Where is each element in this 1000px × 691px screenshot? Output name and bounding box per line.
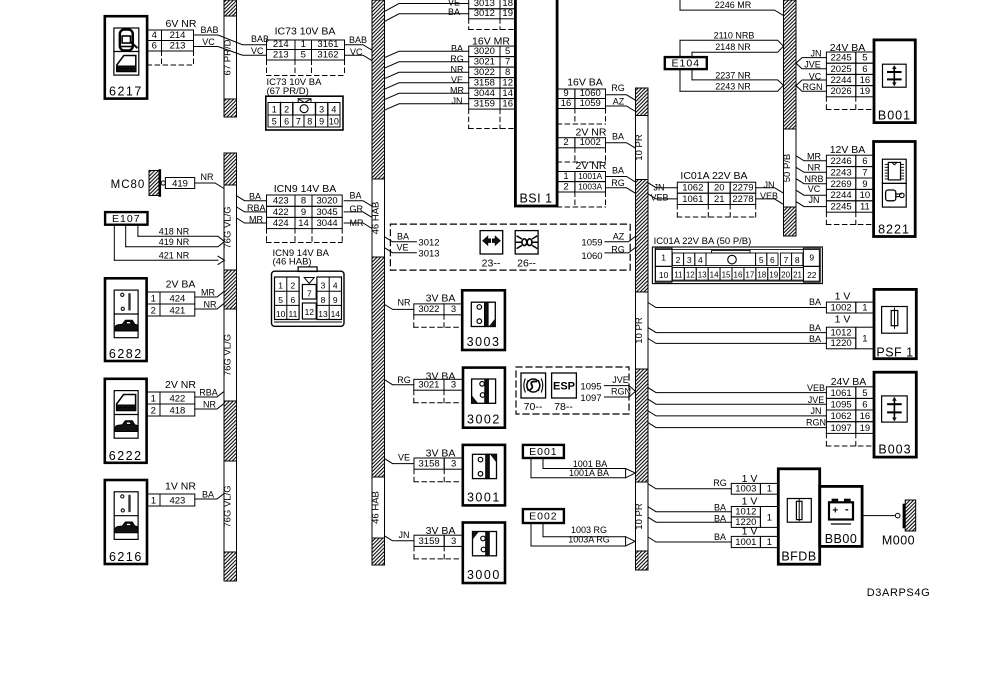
inline connector IC73 10V BA table bbox=[251, 26, 367, 76]
svg-text:10: 10 bbox=[860, 190, 871, 201]
svg-text:8: 8 bbox=[795, 255, 800, 265]
svg-text:VE: VE bbox=[398, 453, 410, 463]
svg-text:3044: 3044 bbox=[474, 88, 495, 99]
svg-text:78--: 78-- bbox=[554, 401, 573, 413]
connector rows for 6282 (1/424, 2/421) bbox=[147, 279, 217, 317]
connector rows for 6222 (1/422, 2/418) bbox=[147, 379, 218, 416]
svg-text:2026: 2026 bbox=[831, 86, 852, 97]
wire 419 NR from MC80 to 76G VL/G bbox=[195, 183, 224, 189]
svg-text:RGN: RGN bbox=[803, 82, 823, 92]
svg-text:RG: RG bbox=[397, 375, 411, 385]
svg-text:418: 418 bbox=[169, 405, 185, 416]
harness bar 67 PR/D bbox=[222, 0, 236, 117]
svg-text:12: 12 bbox=[305, 307, 315, 317]
svg-text:-: - bbox=[845, 504, 849, 516]
svg-text:BA: BA bbox=[809, 334, 821, 344]
svg-text:19: 19 bbox=[502, 8, 513, 19]
wires 2237 NR / 2243 NR converging into 50 P/B bbox=[680, 70, 784, 91]
heated screen B001 bbox=[874, 40, 915, 123]
svg-text:7: 7 bbox=[296, 117, 301, 127]
svg-text:3022: 3022 bbox=[418, 304, 439, 315]
wire 1059 AZ stub bbox=[581, 232, 635, 249]
svg-text:20: 20 bbox=[781, 271, 790, 280]
svg-text:26--: 26-- bbox=[517, 258, 536, 270]
svg-text:1 V: 1 V bbox=[835, 314, 851, 326]
svg-text:2: 2 bbox=[563, 137, 568, 148]
svg-text:3159: 3159 bbox=[474, 99, 495, 110]
svg-text:3: 3 bbox=[451, 459, 456, 470]
svg-text:13: 13 bbox=[698, 271, 707, 280]
svg-text:3013: 3013 bbox=[418, 248, 439, 259]
wire 421 NR to 76G VL/G bbox=[195, 304, 224, 310]
svg-text:2: 2 bbox=[151, 405, 156, 416]
row 1003 (1V) for BFDB bbox=[713, 473, 778, 495]
svg-text:6: 6 bbox=[284, 117, 289, 127]
svg-text:423: 423 bbox=[169, 495, 185, 506]
svg-text:3021: 3021 bbox=[474, 57, 495, 68]
svg-text:424: 424 bbox=[273, 218, 289, 229]
svg-text:+: + bbox=[832, 506, 838, 517]
svg-text:2V BA: 2V BA bbox=[166, 279, 196, 291]
svg-text:8221: 8221 bbox=[878, 223, 910, 237]
ground M000 bbox=[882, 500, 916, 548]
svg-text:419 NR: 419 NR bbox=[159, 237, 190, 247]
svg-text:1059: 1059 bbox=[580, 98, 601, 109]
svg-text:1: 1 bbox=[767, 484, 772, 495]
svg-text:50 P/B: 50 P/B bbox=[782, 154, 793, 183]
svg-text:2246 MR: 2246 MR bbox=[715, 0, 752, 10]
svg-text:5: 5 bbox=[759, 255, 764, 265]
svg-text:10: 10 bbox=[276, 309, 286, 319]
wires BA/RBA/MR from 76G VL/G into ICN9 bbox=[237, 196, 267, 223]
wire 1059 AZ to 10 PR bbox=[606, 106, 636, 112]
svg-text:JN: JN bbox=[452, 96, 463, 106]
svg-text:VC: VC bbox=[251, 46, 264, 56]
splice E001 bbox=[523, 445, 564, 478]
svg-text:5: 5 bbox=[862, 53, 867, 64]
svg-text:5: 5 bbox=[278, 295, 283, 305]
svg-text:14: 14 bbox=[502, 88, 513, 99]
svg-text:46 HAB: 46 HAB bbox=[370, 491, 381, 524]
wire 1220 BA from 10 PR bbox=[648, 338, 826, 343]
harness bar 50 P/B bbox=[782, 0, 796, 236]
svg-text:213: 213 bbox=[170, 40, 186, 51]
BSI1 right table 2V NR (1002) bbox=[557, 127, 624, 163]
svg-text:1: 1 bbox=[767, 513, 772, 524]
icon 26: lamps bbox=[515, 231, 538, 270]
icon 23: direction indicators (double arrow) bbox=[480, 231, 503, 270]
svg-text:1062: 1062 bbox=[682, 183, 703, 194]
svg-text:BA: BA bbox=[448, 7, 460, 17]
wires 3020/3045/3044 from ICN9 to 46 HAB bbox=[344, 201, 372, 229]
svg-text:16V BA: 16V BA bbox=[567, 77, 603, 89]
svg-text:VE: VE bbox=[451, 75, 463, 85]
svg-text:1062: 1062 bbox=[831, 411, 852, 422]
svg-text:NR: NR bbox=[203, 400, 216, 410]
BSI1 left rows 3013/18 and 3012/19 bbox=[448, 0, 515, 30]
wire 2246 MR from top into 50 P/B bbox=[680, 0, 784, 16]
svg-text:1: 1 bbox=[278, 281, 283, 291]
svg-text:2243: 2243 bbox=[831, 167, 852, 178]
splice E002 bbox=[523, 509, 564, 546]
icon 70: ABS/ESP symbol bbox=[521, 373, 546, 413]
svg-text:BA: BA bbox=[397, 232, 409, 242]
svg-text:3: 3 bbox=[321, 281, 326, 291]
svg-text:4: 4 bbox=[698, 255, 703, 265]
wires 2110 NRB / 2148 NR converging into 50 P/B bbox=[680, 30, 784, 52]
rows 1012/1220 (1V) for BFDB bbox=[714, 496, 778, 528]
wire 3158 VE from 46 HAB to 3001 bbox=[385, 459, 415, 464]
door lock actuator 3003 bbox=[462, 290, 505, 350]
fuse box BFDB bbox=[778, 469, 819, 564]
splice E107 bbox=[105, 212, 147, 260]
svg-text:421 NR: 421 NR bbox=[159, 251, 190, 261]
svg-text:ICN9 14V BA: ICN9 14V BA bbox=[274, 183, 336, 195]
svg-text:8: 8 bbox=[505, 67, 510, 78]
connector row for 3002 bbox=[397, 371, 463, 403]
inline connector ICN9 14V BA table bbox=[247, 183, 364, 243]
svg-text:BSI 1: BSI 1 bbox=[519, 192, 552, 206]
svg-text:5: 5 bbox=[505, 46, 510, 57]
svg-text:2025: 2025 bbox=[831, 64, 852, 75]
svg-text:76G VL/G: 76G VL/G bbox=[222, 485, 233, 527]
svg-text:1: 1 bbox=[151, 393, 156, 404]
svg-text:E002: E002 bbox=[529, 511, 558, 523]
svg-text:3045: 3045 bbox=[317, 207, 338, 218]
svg-text:IC01A 22V BA (50 P/B): IC01A 22V BA (50 P/B) bbox=[654, 236, 752, 247]
svg-text:7: 7 bbox=[307, 289, 312, 299]
svg-text:RG: RG bbox=[450, 54, 464, 64]
harness bar 76G VL/G bbox=[222, 153, 236, 581]
svg-text:3003: 3003 bbox=[467, 335, 501, 349]
wire 3022 NR from 46 HAB to 3003 bbox=[385, 304, 414, 309]
svg-text:BB00: BB00 bbox=[825, 532, 858, 546]
svg-text:BA: BA bbox=[809, 323, 821, 333]
svg-text:16: 16 bbox=[734, 271, 743, 280]
svg-text:7: 7 bbox=[505, 57, 510, 68]
svg-text:2: 2 bbox=[151, 305, 156, 316]
svg-text:VE: VE bbox=[396, 243, 408, 253]
svg-text:10: 10 bbox=[329, 117, 339, 127]
svg-text:1: 1 bbox=[661, 253, 666, 263]
svg-text:6: 6 bbox=[291, 295, 296, 305]
svg-text:2: 2 bbox=[284, 105, 289, 115]
svg-text:1 V: 1 V bbox=[742, 526, 758, 538]
svg-text:3: 3 bbox=[451, 380, 456, 391]
svg-text:RG: RG bbox=[611, 83, 625, 93]
harness bar 46 HAB bbox=[370, 0, 384, 565]
svg-text:2: 2 bbox=[676, 255, 681, 265]
row 1002 (1V) for PSF1 bbox=[809, 291, 874, 314]
svg-text:AZ: AZ bbox=[613, 232, 625, 242]
svg-text:MR: MR bbox=[201, 288, 215, 298]
svg-text:JN: JN bbox=[811, 406, 822, 416]
svg-text:D3ARPS4G: D3ARPS4G bbox=[867, 587, 931, 599]
svg-text:6282: 6282 bbox=[109, 347, 143, 361]
row 1001 (1V) for BFDB bbox=[714, 526, 778, 549]
wires from 50 P/B to 8221 bbox=[796, 156, 826, 207]
wire 418 NR to 76G VL/G bbox=[195, 404, 224, 410]
connector table 24V BA for B003 bbox=[806, 376, 874, 446]
wire 1001 BA from 10 PR bbox=[648, 537, 731, 542]
svg-text:1: 1 bbox=[272, 105, 277, 115]
svg-text:4: 4 bbox=[331, 105, 336, 115]
svg-text:19: 19 bbox=[769, 271, 778, 280]
switch module 6282 bbox=[105, 278, 147, 361]
svg-text:RGN: RGN bbox=[611, 387, 631, 397]
svg-text:NR: NR bbox=[808, 163, 821, 173]
wire 421 NR from E107 into 76G VL/G bbox=[114, 251, 224, 265]
svg-text:3162: 3162 bbox=[317, 49, 338, 60]
svg-text:GR: GR bbox=[350, 204, 364, 214]
svg-text:5: 5 bbox=[272, 117, 277, 127]
IC01A connector face (50 P/B) bbox=[652, 236, 822, 284]
svg-text:BA: BA bbox=[249, 192, 261, 202]
wire 424 MR to 76G VL/G bbox=[195, 292, 224, 298]
dashed function group box ESP (items 70, 78) bbox=[516, 367, 629, 414]
wires 3020/3021/3022/3158/3044/3159 to 46 HAB bbox=[385, 51, 469, 110]
svg-text:13: 13 bbox=[318, 309, 328, 319]
wire 1012 BA from 10 PR bbox=[648, 328, 826, 333]
svg-text:213: 213 bbox=[273, 49, 289, 60]
svg-text:BAB: BAB bbox=[200, 25, 218, 35]
svg-text:MC80: MC80 bbox=[111, 179, 146, 191]
svg-text:21: 21 bbox=[714, 194, 725, 205]
svg-text:5: 5 bbox=[301, 49, 306, 60]
svg-text:JVE: JVE bbox=[808, 395, 825, 405]
svg-text:10 PR: 10 PR bbox=[634, 317, 645, 344]
svg-text:18: 18 bbox=[757, 271, 766, 280]
switch module 6222 bbox=[105, 379, 147, 463]
harness bar 10 PR bbox=[634, 88, 648, 570]
svg-text:NRB: NRB bbox=[804, 174, 823, 184]
svg-text:1002: 1002 bbox=[580, 137, 601, 148]
svg-text:12: 12 bbox=[502, 78, 513, 89]
svg-text:1097: 1097 bbox=[831, 423, 852, 434]
svg-text:BFDB: BFDB bbox=[781, 550, 816, 564]
door lock actuator 3002 bbox=[463, 368, 505, 428]
svg-text:3: 3 bbox=[319, 105, 324, 115]
svg-text:3001: 3001 bbox=[467, 490, 501, 504]
svg-text:BA: BA bbox=[350, 191, 362, 201]
svg-text:11: 11 bbox=[860, 202, 870, 213]
svg-text:7: 7 bbox=[862, 167, 867, 178]
svg-text:9: 9 bbox=[301, 207, 306, 218]
svg-text:24V BA: 24V BA bbox=[831, 376, 867, 388]
svg-text:(46 HAB): (46 HAB) bbox=[273, 257, 312, 268]
svg-text:VC: VC bbox=[808, 184, 821, 194]
svg-text:2269: 2269 bbox=[831, 179, 852, 190]
svg-text:M000: M000 bbox=[882, 534, 915, 548]
svg-text:BA: BA bbox=[451, 44, 463, 54]
wire 1060 RG stub bbox=[581, 245, 635, 262]
svg-text:E107: E107 bbox=[112, 213, 141, 225]
svg-text:3158: 3158 bbox=[474, 78, 495, 89]
svg-text:1002: 1002 bbox=[831, 302, 852, 313]
svg-text:6: 6 bbox=[862, 64, 867, 75]
splice E104 bbox=[665, 40, 707, 91]
svg-text:1060: 1060 bbox=[581, 251, 602, 262]
wires from 10 PR to B003 bbox=[648, 388, 826, 428]
svg-text:NR: NR bbox=[398, 298, 411, 308]
svg-text:AZ: AZ bbox=[613, 97, 625, 107]
svg-text:MR: MR bbox=[807, 152, 821, 162]
svg-text:8: 8 bbox=[307, 117, 312, 127]
svg-text:21: 21 bbox=[793, 271, 802, 280]
svg-text:6: 6 bbox=[152, 40, 157, 51]
svg-text:RBA: RBA bbox=[199, 388, 218, 398]
svg-text:3012: 3012 bbox=[474, 8, 495, 19]
svg-text:BA: BA bbox=[612, 166, 624, 176]
svg-text:19: 19 bbox=[860, 86, 871, 97]
svg-text:67 PR/D: 67 PR/D bbox=[222, 39, 233, 75]
svg-text:3161: 3161 bbox=[317, 39, 338, 50]
svg-text:11: 11 bbox=[288, 309, 297, 319]
svg-text:2V NR: 2V NR bbox=[165, 379, 196, 391]
svg-text:20: 20 bbox=[714, 183, 725, 194]
svg-text:2278: 2278 bbox=[732, 194, 753, 205]
svg-text:1012: 1012 bbox=[831, 327, 852, 338]
wire 1003 RG from 10 PR to BFDB bbox=[648, 484, 731, 489]
IC73 connector face (67 PR/D) bbox=[266, 77, 343, 130]
svg-text:4: 4 bbox=[333, 281, 338, 291]
svg-text:JN: JN bbox=[764, 180, 775, 190]
svg-text:B003: B003 bbox=[878, 443, 911, 457]
svg-text:MR: MR bbox=[450, 86, 464, 96]
svg-text:424: 424 bbox=[169, 293, 185, 304]
svg-text:10 PR: 10 PR bbox=[634, 503, 645, 530]
svg-text:1V NR: 1V NR bbox=[165, 481, 196, 493]
wire 422 RBA to 76G VL/G bbox=[195, 392, 224, 398]
door lock actuator 3001 bbox=[463, 445, 505, 506]
svg-text:1220: 1220 bbox=[831, 338, 852, 349]
connector row for 3003 bbox=[398, 293, 464, 328]
connector row for 3001 bbox=[398, 448, 463, 482]
svg-text:1: 1 bbox=[151, 293, 156, 304]
svg-text:B001: B001 bbox=[878, 109, 911, 123]
wire from BB00 to ground M000 bbox=[862, 515, 895, 517]
control unit BSI1 bbox=[515, 0, 557, 206]
svg-text:1: 1 bbox=[151, 495, 156, 506]
fuse box PSF1 bbox=[874, 289, 916, 359]
wire 1001A BA to 10 PR bbox=[606, 177, 636, 183]
svg-text:1061: 1061 bbox=[831, 388, 852, 399]
svg-text:JN: JN bbox=[399, 530, 410, 540]
svg-text:1: 1 bbox=[563, 171, 568, 182]
svg-text:7: 7 bbox=[784, 255, 789, 265]
svg-text:2244: 2244 bbox=[831, 75, 852, 86]
svg-text:19: 19 bbox=[860, 423, 871, 434]
svg-text:2245: 2245 bbox=[831, 202, 852, 213]
wire 3162 VC to 46 HAB bbox=[345, 55, 373, 61]
door lock actuator 3000 bbox=[463, 523, 505, 584]
svg-text:RG: RG bbox=[611, 178, 625, 188]
svg-text:3021: 3021 bbox=[418, 380, 439, 391]
svg-text:1061: 1061 bbox=[682, 194, 703, 205]
ICN9 connector face (46 HAB) bbox=[272, 248, 345, 326]
wire 214 BAB from 6217 through 67 PR/D bbox=[194, 25, 267, 45]
svg-text:4: 4 bbox=[152, 30, 157, 41]
wire 1012 BA from 10 PR bbox=[648, 507, 731, 512]
wire 1002 BA to 10 PR bbox=[606, 143, 636, 149]
svg-text:3: 3 bbox=[687, 255, 692, 265]
wires 418 NR / 419 NR from E107 converging into 76G VL/G bbox=[126, 227, 225, 248]
wire 3012 BA to 46 HAB bbox=[385, 14, 469, 22]
svg-text:12: 12 bbox=[686, 271, 695, 280]
svg-text:2243 NR: 2243 NR bbox=[715, 82, 751, 92]
svg-text:2245: 2245 bbox=[831, 53, 852, 64]
svg-text:2148 NR: 2148 NR bbox=[715, 42, 751, 52]
svg-text:3044: 3044 bbox=[317, 218, 338, 229]
svg-text:(67 PR/D): (67 PR/D) bbox=[267, 86, 309, 97]
connector rows for 6217 (pins 4/6, wires 214/213) bbox=[147, 18, 197, 65]
wire 3012 BA stub bbox=[385, 232, 440, 249]
svg-text:1001A BA: 1001A BA bbox=[569, 468, 609, 478]
svg-text:2237 NR: 2237 NR bbox=[715, 70, 751, 80]
svg-text:BA: BA bbox=[202, 490, 214, 500]
svg-text:NR: NR bbox=[201, 172, 214, 182]
svg-text:RG: RG bbox=[713, 478, 727, 488]
svg-text:2244: 2244 bbox=[831, 190, 852, 201]
svg-text:ESP: ESP bbox=[553, 381, 575, 393]
BSI1 left table 16V MR bbox=[450, 36, 515, 129]
svg-text:JN: JN bbox=[811, 49, 822, 59]
svg-text:3000: 3000 bbox=[467, 568, 501, 582]
svg-text:BA: BA bbox=[714, 503, 726, 513]
wire 3161 BAB to 46 HAB bbox=[345, 45, 373, 51]
svg-text:1095: 1095 bbox=[831, 399, 852, 410]
svg-text:1 V: 1 V bbox=[835, 291, 851, 303]
svg-text:422: 422 bbox=[273, 207, 289, 218]
drawing reference D3ARPS4G bbox=[867, 587, 931, 599]
svg-text:14: 14 bbox=[331, 309, 341, 319]
svg-text:76G VL/G: 76G VL/G bbox=[222, 334, 233, 376]
svg-text:10: 10 bbox=[659, 270, 669, 280]
svg-text:RGN: RGN bbox=[806, 418, 826, 428]
svg-text:2110 NRB: 2110 NRB bbox=[714, 30, 755, 40]
svg-text:3158: 3158 bbox=[419, 459, 440, 470]
svg-text:16: 16 bbox=[502, 99, 513, 110]
connector table 24V BA for B001 bbox=[826, 42, 874, 110]
svg-text:JN: JN bbox=[809, 195, 820, 205]
svg-text:VEB: VEB bbox=[807, 383, 825, 393]
svg-text:3V BA: 3V BA bbox=[426, 293, 456, 305]
svg-text:IC73 10V BA: IC73 10V BA bbox=[275, 26, 336, 38]
svg-text:E001: E001 bbox=[529, 446, 558, 458]
svg-text:2246: 2246 bbox=[831, 156, 852, 167]
wire 3021 RG from 46 HAB to 3002 bbox=[385, 380, 414, 385]
svg-text:NR: NR bbox=[451, 65, 464, 75]
wire 1060 RG to 10 PR bbox=[606, 95, 636, 101]
svg-text:3020: 3020 bbox=[474, 46, 495, 57]
svg-text:IC01A 22V BA: IC01A 22V BA bbox=[680, 170, 747, 182]
svg-text:9: 9 bbox=[333, 295, 338, 305]
svg-text:2: 2 bbox=[563, 181, 568, 192]
wires 1095 JVE / 1097 RGN converging into 10 PR bbox=[580, 375, 635, 404]
svg-text:423: 423 bbox=[273, 196, 289, 207]
svg-text:418 NR: 418 NR bbox=[159, 227, 190, 237]
svg-text:14: 14 bbox=[710, 271, 719, 280]
wire 3013 VE stub bbox=[385, 243, 440, 260]
svg-text:15: 15 bbox=[722, 271, 731, 280]
svg-text:1: 1 bbox=[301, 39, 306, 50]
heated screen B003 bbox=[874, 372, 916, 457]
wire 3159 JN from 46 HAB to 3000 bbox=[385, 536, 415, 541]
svg-text:6: 6 bbox=[862, 156, 867, 167]
svg-text:1012: 1012 bbox=[735, 506, 756, 517]
wires 1001 BA / 1001A BA converging into 10 PR bbox=[531, 459, 635, 478]
svg-text:9: 9 bbox=[319, 117, 324, 127]
